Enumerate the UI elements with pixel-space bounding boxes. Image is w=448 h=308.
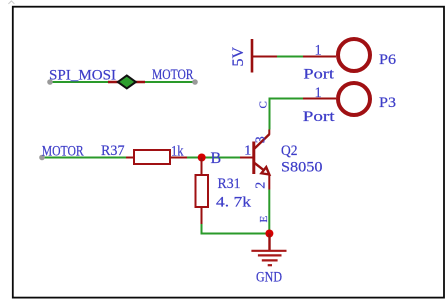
transistor Q2 emitter pin (268, 175, 270, 190)
svg-text:4. 7k: 4. 7k (216, 195, 252, 211)
svg-text:1k: 1k (171, 144, 184, 160)
svg-text:B: B (211, 150, 222, 167)
ground bar 3 (262, 259, 278, 261)
svg-text:P3: P3 (379, 95, 396, 111)
transistor Q2 base pin (240, 157, 254, 159)
wire emitter down (268, 190, 270, 234)
junction dot B (198, 154, 206, 162)
svg-text:R37: R37 (101, 143, 125, 159)
resistor R37 body (134, 150, 170, 164)
connector P3 pin 1 (303, 98, 336, 100)
svg-text:3: 3 (253, 136, 268, 143)
resistor R31 bottom lead (201, 207, 203, 224)
svg-text:1: 1 (315, 85, 322, 101)
svg-text:P6: P6 (379, 52, 397, 68)
transistor Q2 emitter diagonal (255, 163, 264, 170)
svg-text:1: 1 (244, 143, 251, 158)
svg-text:2: 2 (254, 182, 269, 189)
wire collector to P3 (270, 99, 304, 130)
transistor Q2 emitter arrow (261, 167, 269, 174)
net tie pins (108, 81, 145, 83)
wire SPI_MOSI to MOTOR (47, 79, 198, 85)
ground bar 4 (268, 264, 272, 266)
svg-text:MOTOR: MOTOR (42, 144, 84, 160)
resistor R31 body (196, 175, 209, 207)
transistor Q2 collector pin (268, 130, 270, 135)
net tie diamond (118, 76, 136, 89)
ground bar 2 (258, 254, 282, 256)
svg-text:Port: Port (303, 109, 336, 125)
svg-text:S8050: S8050 (281, 160, 323, 176)
connector P6 circle (338, 39, 370, 71)
resistor R37 leads (126, 157, 134, 159)
resistor R31 top lead (201, 158, 203, 176)
svg-text:1: 1 (315, 42, 322, 58)
svg-text:R31: R31 (218, 176, 241, 192)
ground bar 1 (251, 250, 286, 252)
wire MOTOR to R37 (39, 155, 126, 161)
svg-text:GND: GND (256, 270, 282, 286)
wire R31 to GND junction (202, 224, 270, 234)
transistor Q2 base bar (252, 142, 255, 175)
junction dot GND (265, 230, 273, 238)
svg-text:E: E (258, 216, 270, 223)
svg-text:C: C (258, 101, 270, 108)
connector P6 pin 1 (303, 56, 336, 58)
svg-text:MOTOR: MOTOR (152, 67, 194, 83)
ground stem (268, 234, 270, 251)
svg-text:Port: Port (303, 67, 335, 83)
svg-text:SPI_MOSI: SPI_MOSI (49, 68, 116, 84)
wire 5V to P6 (277, 56, 303, 58)
power symbol 5V bar (251, 39, 254, 73)
wire R37 to junction (187, 157, 202, 159)
power pin 5V (252, 56, 277, 58)
connector P3 circle (338, 83, 370, 115)
svg-text:Q2: Q2 (281, 143, 298, 159)
wire junction to Q2 base (202, 157, 240, 159)
svg-text:5V: 5V (230, 47, 247, 67)
transistor Q2 collector diagonal (255, 134, 270, 148)
